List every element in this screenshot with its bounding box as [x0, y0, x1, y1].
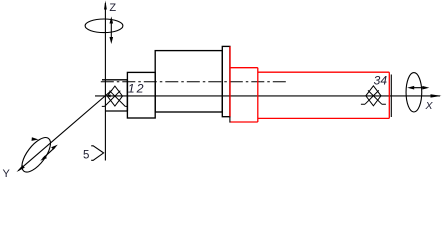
X arrowhead at origin [106, 94, 110, 97]
red sleeve long body [258, 72, 390, 118]
axis Z arrowhead [104, 1, 107, 10]
red sleeve flange box [230, 68, 258, 122]
red sleeve left face over flange [229, 46, 231, 116]
axis Y line [18, 90, 112, 171]
svg-text:Z: Z [109, 2, 116, 14]
svg-text:X: X [425, 100, 434, 112]
step section box (surfaces 1,2) [127, 72, 155, 118]
Y rotation arc arrowhead [32, 137, 39, 141]
svg-text:2: 2 [136, 82, 144, 96]
svg-text:4: 4 [380, 74, 387, 88]
axis X line [95, 95, 440, 97]
shaft right end face (inside sleeve) [390, 75, 392, 118]
Z translation double arrow [110, 17, 114, 45]
flange washer [222, 46, 230, 116]
svg-text:1: 1 [128, 82, 135, 96]
rotation ellipse around X [406, 73, 422, 112]
svg-text:Y: Y [3, 168, 11, 180]
rotation ellipse around Z [85, 19, 123, 33]
svg-text:5: 5 [83, 150, 89, 162]
left journal (stub) outline [102, 80, 127, 111]
axis Y arrowhead [17, 165, 25, 172]
rotation ellipse around Y [17, 133, 56, 177]
black lower corner of sleeve left face [229, 117, 231, 123]
locating symbol points 1,2 (diamond with cross) [102, 86, 128, 106]
Y translation double arrow [40, 145, 58, 161]
X translation double arrow [407, 86, 429, 90]
locating symbol points 3,4 (diamond with cross) [361, 86, 386, 106]
support point 5 chevron on left face [91, 146, 103, 161]
main large cylinder section [155, 51, 222, 112]
shaft centerline (dash-dot) [101, 81, 286, 83]
axis Z line [104, 3, 106, 161]
axis X arrowhead [431, 94, 442, 97]
